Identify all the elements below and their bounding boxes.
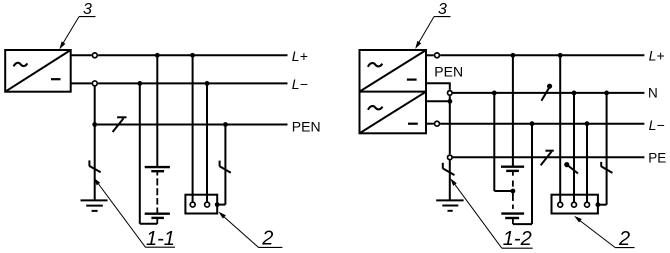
wire battery bottom return (right) <box>513 223 532 225</box>
wire battery negative riser to L- <box>531 124 533 224</box>
terminal circle PE (right) <box>448 155 453 160</box>
wire stub L- terminal <box>71 82 92 84</box>
pin 1 (right block) <box>558 202 563 207</box>
wire midpoint riser to N <box>493 93 495 191</box>
svg-text:3: 3 <box>83 1 92 18</box>
terminal circle L+ (right) <box>435 53 440 58</box>
wire lower unit plus output <box>426 100 450 102</box>
pin 1 (left block) <box>190 202 195 207</box>
link T symbol on PEN conductor <box>113 117 127 132</box>
converter U1 (left a.c./d.c. source box) <box>5 50 71 92</box>
ground (right earth electrode) <box>436 200 463 210</box>
node frame connection dot (right) <box>596 202 601 207</box>
wire battery positive drop <box>156 55 158 167</box>
svg-text:PE: PE <box>648 150 666 165</box>
label 1-1 (left earthing callout) <box>94 178 175 251</box>
wire N line (right) <box>453 92 645 94</box>
wire midpoint down to PE terminal <box>449 101 451 154</box>
disconnector S4 (right frame switch) <box>601 162 612 173</box>
pin 3 (right block) <box>585 202 590 207</box>
node PE tap on PEN <box>223 122 228 127</box>
wire load feed from L+ <box>192 55 194 201</box>
terminal circle N (right) <box>448 91 453 96</box>
wire load feed from N <box>573 93 575 202</box>
node battery midpoint <box>511 189 516 194</box>
label 2 (left exposed part callout) <box>218 212 282 250</box>
wire frame earthing conductor (right) <box>606 93 608 205</box>
wire L+ line (left) <box>98 54 287 56</box>
wire PE line (right) <box>453 156 645 158</box>
node midpoint junction <box>448 99 453 104</box>
svg-text:L−: L− <box>649 117 665 133</box>
node load tap on L+ <box>190 53 195 58</box>
svg-text:L+: L+ <box>292 48 308 64</box>
wire stub L+ (right) <box>426 54 434 56</box>
node battery - tap on L- (right) <box>530 121 535 126</box>
wire PE terminal to earth <box>449 161 451 201</box>
wire PEN line (left) <box>95 124 288 126</box>
svg-text:N: N <box>648 86 658 101</box>
wire battery negative riser <box>139 83 141 223</box>
wire jog to frame (right) <box>598 204 607 206</box>
terminal circle L- (left) <box>92 81 97 86</box>
node load tap on L- <box>205 81 210 86</box>
wire L- line (left) <box>98 82 287 84</box>
terminal circle L- (right) <box>435 121 440 126</box>
wire upper unit minus output <box>426 83 450 89</box>
wire L+ line (right) <box>440 54 644 56</box>
wire load feed from L- <box>206 83 208 201</box>
disconnector S3 (right earthing switch) <box>443 163 455 175</box>
node battery - on L- <box>137 81 142 86</box>
label 1-2 (right earthing callout) <box>450 178 533 250</box>
wire N terminal to midpoint node <box>449 96 451 101</box>
terminal circle L+ (left) <box>92 53 97 58</box>
connector block (left exposed conductive part) <box>185 195 217 214</box>
node frame connection dot <box>215 202 220 207</box>
wire jog to frame <box>217 204 225 206</box>
svg-text:3: 3 <box>438 1 447 18</box>
node load tap on N <box>572 91 577 96</box>
wire stub L- (right) <box>426 123 434 125</box>
wire stub L+ terminal <box>71 54 92 56</box>
wire load feed from L+ (right) <box>559 55 561 201</box>
switch on N load feed (blade with dot) <box>564 162 578 174</box>
label 3 (right source callout) <box>415 1 450 49</box>
svg-text:1-2: 1-2 <box>503 228 532 250</box>
battery GB2 lower half <box>501 191 524 224</box>
node load tap on L+ (right) <box>558 53 563 58</box>
connector block (right exposed conductive part) <box>552 195 598 214</box>
pin 2 (left block) <box>205 202 210 207</box>
disconnector S2 (left frame-earthing switch) <box>220 161 231 173</box>
link T symbol on PE conductor <box>541 151 554 166</box>
svg-text:PEN: PEN <box>434 64 463 80</box>
wire earthing drop from L- terminal <box>94 86 96 200</box>
wire battery midpoint to N riser <box>494 190 513 192</box>
svg-text:2: 2 <box>261 228 273 250</box>
wire L- line (right) <box>440 123 644 125</box>
label 3 (left source callout) <box>59 1 95 50</box>
label 2 (right exposed part callout) <box>574 216 634 250</box>
converter U2 (right a.c./d.c. source, two units) <box>360 50 427 133</box>
node PEN junction (left) <box>92 122 97 127</box>
node frame tap on N <box>604 91 609 96</box>
battery GB1 (left battery bank) <box>145 167 170 224</box>
disconnector S1 (left earthing switch) <box>89 160 100 172</box>
svg-text:L−: L− <box>292 76 308 92</box>
node battery + on L+ <box>155 53 160 58</box>
svg-text:PEN: PEN <box>292 119 321 135</box>
node battery + tap on L+ (right) <box>511 53 516 58</box>
node midpoint tap on N <box>492 91 497 96</box>
wire battery positive drop (right) <box>512 55 514 166</box>
switch on N conductor (blade with dot) <box>541 84 552 101</box>
pin 2 (right block) <box>572 202 577 207</box>
wire exposed-part earthing conductor <box>224 125 226 205</box>
node load tap on L- (right) <box>585 121 590 126</box>
battery GB2 upper half <box>501 167 524 187</box>
svg-text:L+: L+ <box>649 47 665 63</box>
svg-text:2: 2 <box>618 228 630 250</box>
wire load feed from L- (right) <box>586 124 588 202</box>
wire battery bottom return <box>140 223 158 225</box>
ground (left earth electrode) <box>81 200 108 211</box>
